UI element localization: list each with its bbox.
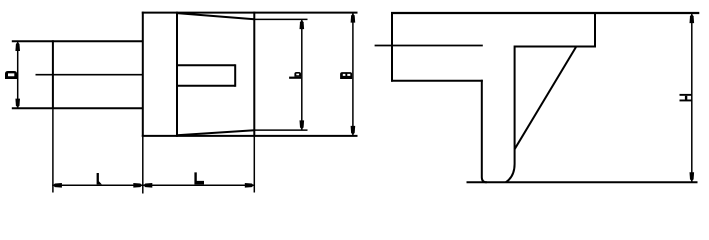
slot top edge — [177, 64, 235, 66]
shaft left edge — [52, 40, 54, 109]
arrow L right — [245, 183, 254, 188]
stem left edge with rounded corner — [482, 80, 487, 183]
body left edge — [142, 12, 144, 137]
label L — [194, 172, 204, 184]
b top extension line — [254, 18, 307, 20]
dimension line D — [17, 41, 19, 108]
label b (rotated) — [289, 77, 301, 79]
arrow L left — [143, 183, 152, 188]
arrow H top — [690, 14, 695, 23]
arrow b top — [300, 20, 305, 29]
body right edge — [253, 12, 255, 137]
right view bar bottom-left edge — [391, 80, 483, 82]
shaft top edge with D extension — [12, 40, 144, 42]
dimension line H — [691, 13, 693, 182]
label B (rotated) — [340, 72, 352, 79]
label D (rotated) — [5, 71, 17, 79]
dimension line b — [301, 19, 303, 130]
arrow H bottom — [690, 172, 695, 181]
dimension line B — [352, 13, 354, 136]
arrow D bottom — [15, 99, 20, 108]
arrow B bottom — [351, 126, 356, 135]
arrow l right — [133, 183, 142, 188]
taper diagonal — [515, 47, 577, 150]
stem right edge with curved foot — [506, 46, 515, 183]
arrow B top — [351, 14, 356, 23]
dimension line l and L — [52, 184, 255, 186]
b bottom extension line — [254, 129, 307, 131]
body top edge with B extension — [142, 12, 358, 14]
extension line below body left for l and L — [142, 137, 144, 194]
taper bottom slant — [177, 130, 254, 135]
right view bottom edge with H extension — [467, 181, 698, 183]
taper top slant — [177, 13, 254, 19]
right view top edge with H extension — [391, 12, 699, 14]
extension line below shaft for l — [52, 109, 54, 192]
internal shoulder line — [375, 45, 483, 47]
arrow b bottom — [300, 120, 305, 129]
shaft bottom edge with D extension — [12, 107, 144, 109]
shaft center line — [36, 74, 143, 76]
bar right edge — [594, 12, 596, 48]
bar bottom-right edge — [515, 46, 595, 48]
label l — [97, 173, 102, 184]
right view left edge — [391, 12, 393, 82]
inner vertical line — [176, 12, 178, 137]
slot right edge — [234, 64, 236, 87]
extension line below body right for L — [253, 137, 255, 193]
arrow l left — [53, 183, 62, 188]
body bottom edge with B extension — [142, 135, 358, 137]
arrow D top — [15, 42, 20, 51]
slot bottom edge — [177, 85, 235, 87]
label H (rotated) — [680, 94, 692, 96]
